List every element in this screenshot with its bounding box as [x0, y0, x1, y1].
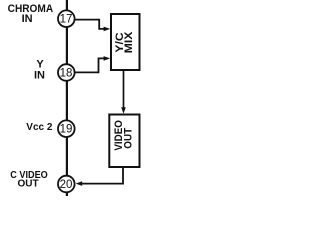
wire VIDEO OUT to pin20 — [81, 168, 123, 184]
label CHROMA IN (pin 17) — [8, 3, 54, 25]
arrowhead into Y/C MIX upper — [104, 27, 111, 32]
wire main vertical pin bus — [66, 0, 68, 196]
svg-text:18: 18 — [60, 67, 73, 79]
label C VIDEO OUT (pin 20) — [10, 170, 48, 190]
svg-text:OUT: OUT — [17, 179, 38, 190]
wire pin18 to Y/C MIX — [75, 58, 104, 72]
pin 17 — [58, 10, 75, 27]
svg-text:20: 20 — [60, 179, 73, 191]
arrowhead into Y/C MIX lower — [104, 56, 111, 61]
label Y IN (pin 18) — [34, 59, 45, 82]
pin 20 — [58, 176, 75, 193]
svg-text:17: 17 — [60, 14, 73, 26]
svg-text:OUT: OUT — [122, 128, 134, 149]
wire Y/C MIX to VIDEO OUT — [123, 71, 125, 109]
block VIDEO OUT — [109, 115, 139, 168]
block Y/C MIX — [111, 14, 140, 70]
svg-text:IN: IN — [22, 13, 33, 25]
arrowhead into pin20 — [76, 181, 83, 186]
svg-text:MIX: MIX — [123, 31, 135, 53]
svg-text:Vcc 2: Vcc 2 — [26, 122, 53, 133]
svg-text:19: 19 — [60, 124, 73, 136]
arrowhead into VIDEO OUT top — [121, 107, 126, 114]
pin 19 — [58, 120, 75, 137]
svg-text:IN: IN — [34, 70, 45, 82]
pin 18 — [58, 64, 75, 81]
wire pin17 to Y/C MIX — [75, 20, 104, 29]
